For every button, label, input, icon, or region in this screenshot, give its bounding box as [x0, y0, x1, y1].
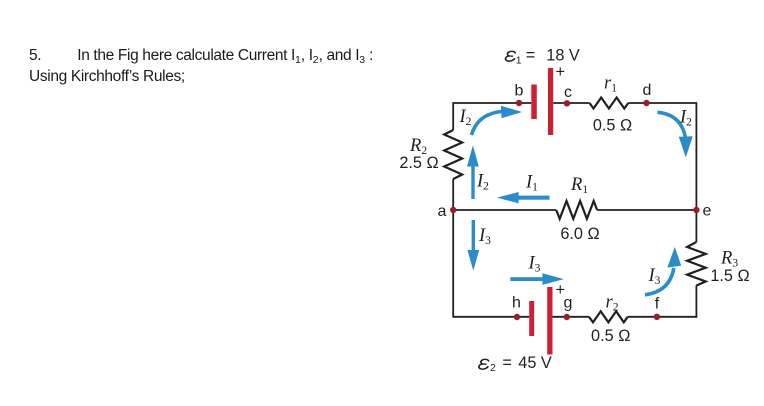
svg-text:I3: I3	[648, 266, 661, 287]
svg-text:I2: I2	[459, 107, 472, 128]
wire: bottom-left corner to battery E2 negative plate (through node h)	[453, 316, 529, 318]
resistor r2 (zigzag, bottom wire)	[589, 311, 628, 322]
battery E1 negative plate (short)	[531, 85, 537, 120]
label EMF1 = 18 V	[506, 51, 516, 61]
resistor R1 (zigzag, middle wire)	[556, 201, 597, 219]
node b dot	[516, 100, 522, 106]
node f dot	[654, 314, 660, 320]
node a dot	[450, 207, 456, 213]
svg-text:1.5 Ω: 1.5 Ω	[710, 267, 749, 285]
wire: r2 to bottom-right corner (through node f)	[628, 316, 697, 318]
svg-text:I3: I3	[478, 226, 491, 247]
current arrow I3 straight down (left branch below node a)	[467, 220, 479, 271]
resistor r1 (zigzag, top wire)	[590, 98, 629, 109]
svg-text:a: a	[437, 203, 446, 220]
svg-text:2=45 V: 2=45 V	[490, 354, 552, 374]
svg-text:I2: I2	[679, 108, 692, 129]
svg-text:f: f	[655, 296, 660, 313]
svg-text:2.5 Ω: 2.5 Ω	[399, 154, 438, 172]
svg-text:I3: I3	[528, 254, 541, 275]
svg-text:0.5 Ω: 0.5 Ω	[593, 117, 632, 135]
node g dot	[564, 314, 570, 320]
svg-text:R1: R1	[570, 175, 588, 196]
current arrow I1 (middle branch, pointing left)	[497, 192, 550, 203]
wire: battery E2 positive plate to r2 (through node g)	[553, 316, 590, 318]
wire: middle branch, R1 to node e	[597, 209, 696, 211]
svg-text:I1: I1	[525, 173, 538, 194]
wire: r1 to top-right corner (through node d)	[628, 102, 697, 104]
label EMF2 = 45 V	[479, 359, 489, 369]
wire: middle branch, node a to R1	[453, 209, 556, 211]
node d dot	[643, 100, 649, 106]
wire: right side, top-right corner down through node e to R3	[695, 103, 697, 242]
svg-text:g: g	[564, 295, 573, 312]
current arrow I3 curved (bottom right, pointing up)	[645, 247, 681, 295]
resistor R3 (zigzag, right wire)	[687, 242, 706, 285]
resistor R2 (zigzag, left wire)	[444, 130, 462, 179]
current arrow I3 (bottom branch, pointing right)	[510, 273, 564, 285]
svg-text:1=18 V: 1=18 V	[516, 47, 580, 67]
current arrow I2 straight up (left branch)	[467, 145, 479, 199]
wire: right side, R3 down to bottom-right corner	[695, 285, 697, 317]
problem statement text	[29, 46, 373, 87]
svg-text:b: b	[515, 83, 524, 100]
svg-text:d: d	[643, 82, 652, 99]
node e dot	[693, 207, 699, 213]
svg-text:e: e	[703, 203, 712, 220]
wire: battery E1 positive plate to r1 (through node c)	[553, 102, 589, 104]
svg-text:c: c	[564, 84, 572, 101]
wire: top-left corner to battery E1 negative plate (through node b)	[453, 102, 531, 104]
battery E2 negative plate (short)	[529, 301, 534, 336]
svg-text:6.0 Ω: 6.0 Ω	[560, 225, 599, 243]
current arrow I2 curved (top right, pointing down)	[658, 112, 693, 157]
node c dot	[564, 100, 570, 106]
battery E1 positive plate (long)	[548, 68, 553, 135]
svg-text:h: h	[512, 295, 521, 312]
wire: left side, R2 down through node a to bottom-left corner	[452, 179, 454, 318]
svg-text:+: +	[556, 63, 566, 81]
wire: left side, top-left corner down to R2	[452, 102, 454, 130]
svg-text:I2: I2	[476, 172, 489, 193]
battery E2 positive plate (long)	[547, 287, 552, 355]
node h dot	[514, 314, 520, 320]
svg-text:0.5 Ω: 0.5 Ω	[591, 327, 630, 345]
current arrow I2 curved (top left, pointing right into node b)	[472, 106, 523, 135]
svg-text:r2: r2	[606, 293, 619, 314]
svg-text:r1: r1	[604, 74, 617, 95]
